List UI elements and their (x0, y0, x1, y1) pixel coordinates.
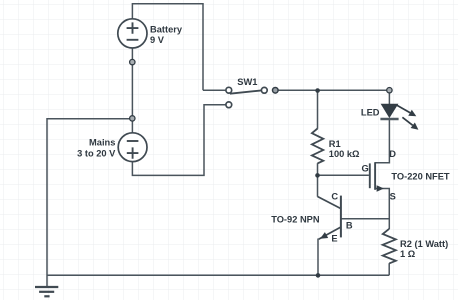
svg-text:TO-92 NPN: TO-92 NPN (271, 215, 320, 225)
switch SW1 throw terminal (261, 87, 267, 93)
mains plus sign (127, 147, 139, 158)
svg-text:G: G (362, 164, 369, 174)
ground bar 1 (35, 286, 58, 288)
node junction dot mains top (130, 116, 135, 121)
svg-text:S: S (390, 192, 396, 202)
mains V2 source circle (118, 133, 147, 162)
svg-text:R1: R1 (329, 139, 341, 149)
battery minus sign (127, 39, 139, 41)
battery plus sign (127, 22, 139, 33)
svg-text:B: B (346, 221, 353, 231)
node junction dot emitter rail (316, 273, 321, 278)
wire NPN base (341, 218, 389, 220)
wire LED cathode to drain (375, 119, 389, 163)
resistor R2 (383, 229, 396, 264)
svg-text:D: D (389, 149, 396, 159)
svg-text:Battery: Battery (150, 24, 183, 34)
resistor R1 (312, 129, 323, 164)
transistor Q2 emitter arrow (320, 232, 328, 239)
switch SW1 lower throw terminal (226, 102, 232, 108)
wire switch left stub (203, 89, 226, 91)
transistor Q2 base bar (340, 196, 342, 238)
svg-text:LED: LED (361, 107, 380, 117)
node switch output ring (273, 88, 279, 94)
wire R2 bottom (388, 263, 390, 275)
wire R1 bottom to NPN collector (317, 163, 319, 197)
mosfet Q1 channel bar (374, 162, 376, 190)
ground bar 2 (39, 291, 54, 293)
LED light arrow 1 (397, 105, 416, 116)
LED D1 triangle (382, 104, 398, 117)
wire battery bottom to mains top (131, 48, 133, 133)
svg-text:C: C (331, 192, 338, 202)
svg-text:TO-220 NFET: TO-220 NFET (391, 172, 450, 182)
svg-text:SW1: SW1 (237, 77, 257, 87)
svg-text:R2 (1 Watt): R2 (1 Watt) (400, 239, 448, 249)
svg-text:1 Ω: 1 Ω (400, 249, 416, 259)
wire battery top rail (132, 4, 203, 91)
wire source to base to R2 (375, 189, 389, 230)
LED D1 cathode bar (380, 118, 398, 120)
switch SW1 lever (230, 90, 262, 93)
svg-text:E: E (331, 234, 337, 244)
ground bar 3 (44, 295, 49, 297)
wire mains bottom to switch lower throw (132, 105, 226, 176)
LED light arrow 2 (402, 117, 418, 129)
wire gate (318, 174, 369, 176)
mosfet Q1 gate bar (369, 163, 371, 188)
switch SW1 pole terminal (226, 87, 232, 93)
transistor Q2 emitter slant (319, 227, 341, 239)
wire R1 top (317, 91, 319, 129)
node junction dot R1 top (315, 88, 320, 93)
wire mains junction to left column (47, 119, 132, 287)
node junction dot battery-mains (130, 59, 135, 64)
wire switch output to LED anode (278, 89, 389, 91)
svg-text:100 kΩ: 100 kΩ (329, 149, 360, 159)
wire ground rail (47, 274, 389, 276)
node junction dot R1 bottom gate (315, 173, 320, 178)
wire LED anode stub (388, 93, 390, 105)
battery V1 source circle (118, 19, 147, 48)
transistor Q2 collector slant (318, 197, 341, 209)
mosfet Q1 source arrow (377, 185, 384, 192)
node LED anode ring (387, 88, 392, 93)
mains minus sign (127, 140, 139, 142)
svg-text:3 to 20 V: 3 to 20 V (77, 149, 116, 159)
wire NPN emitter down (317, 239, 319, 276)
svg-text:Mains: Mains (89, 138, 115, 148)
svg-text:9 V: 9 V (150, 35, 165, 45)
